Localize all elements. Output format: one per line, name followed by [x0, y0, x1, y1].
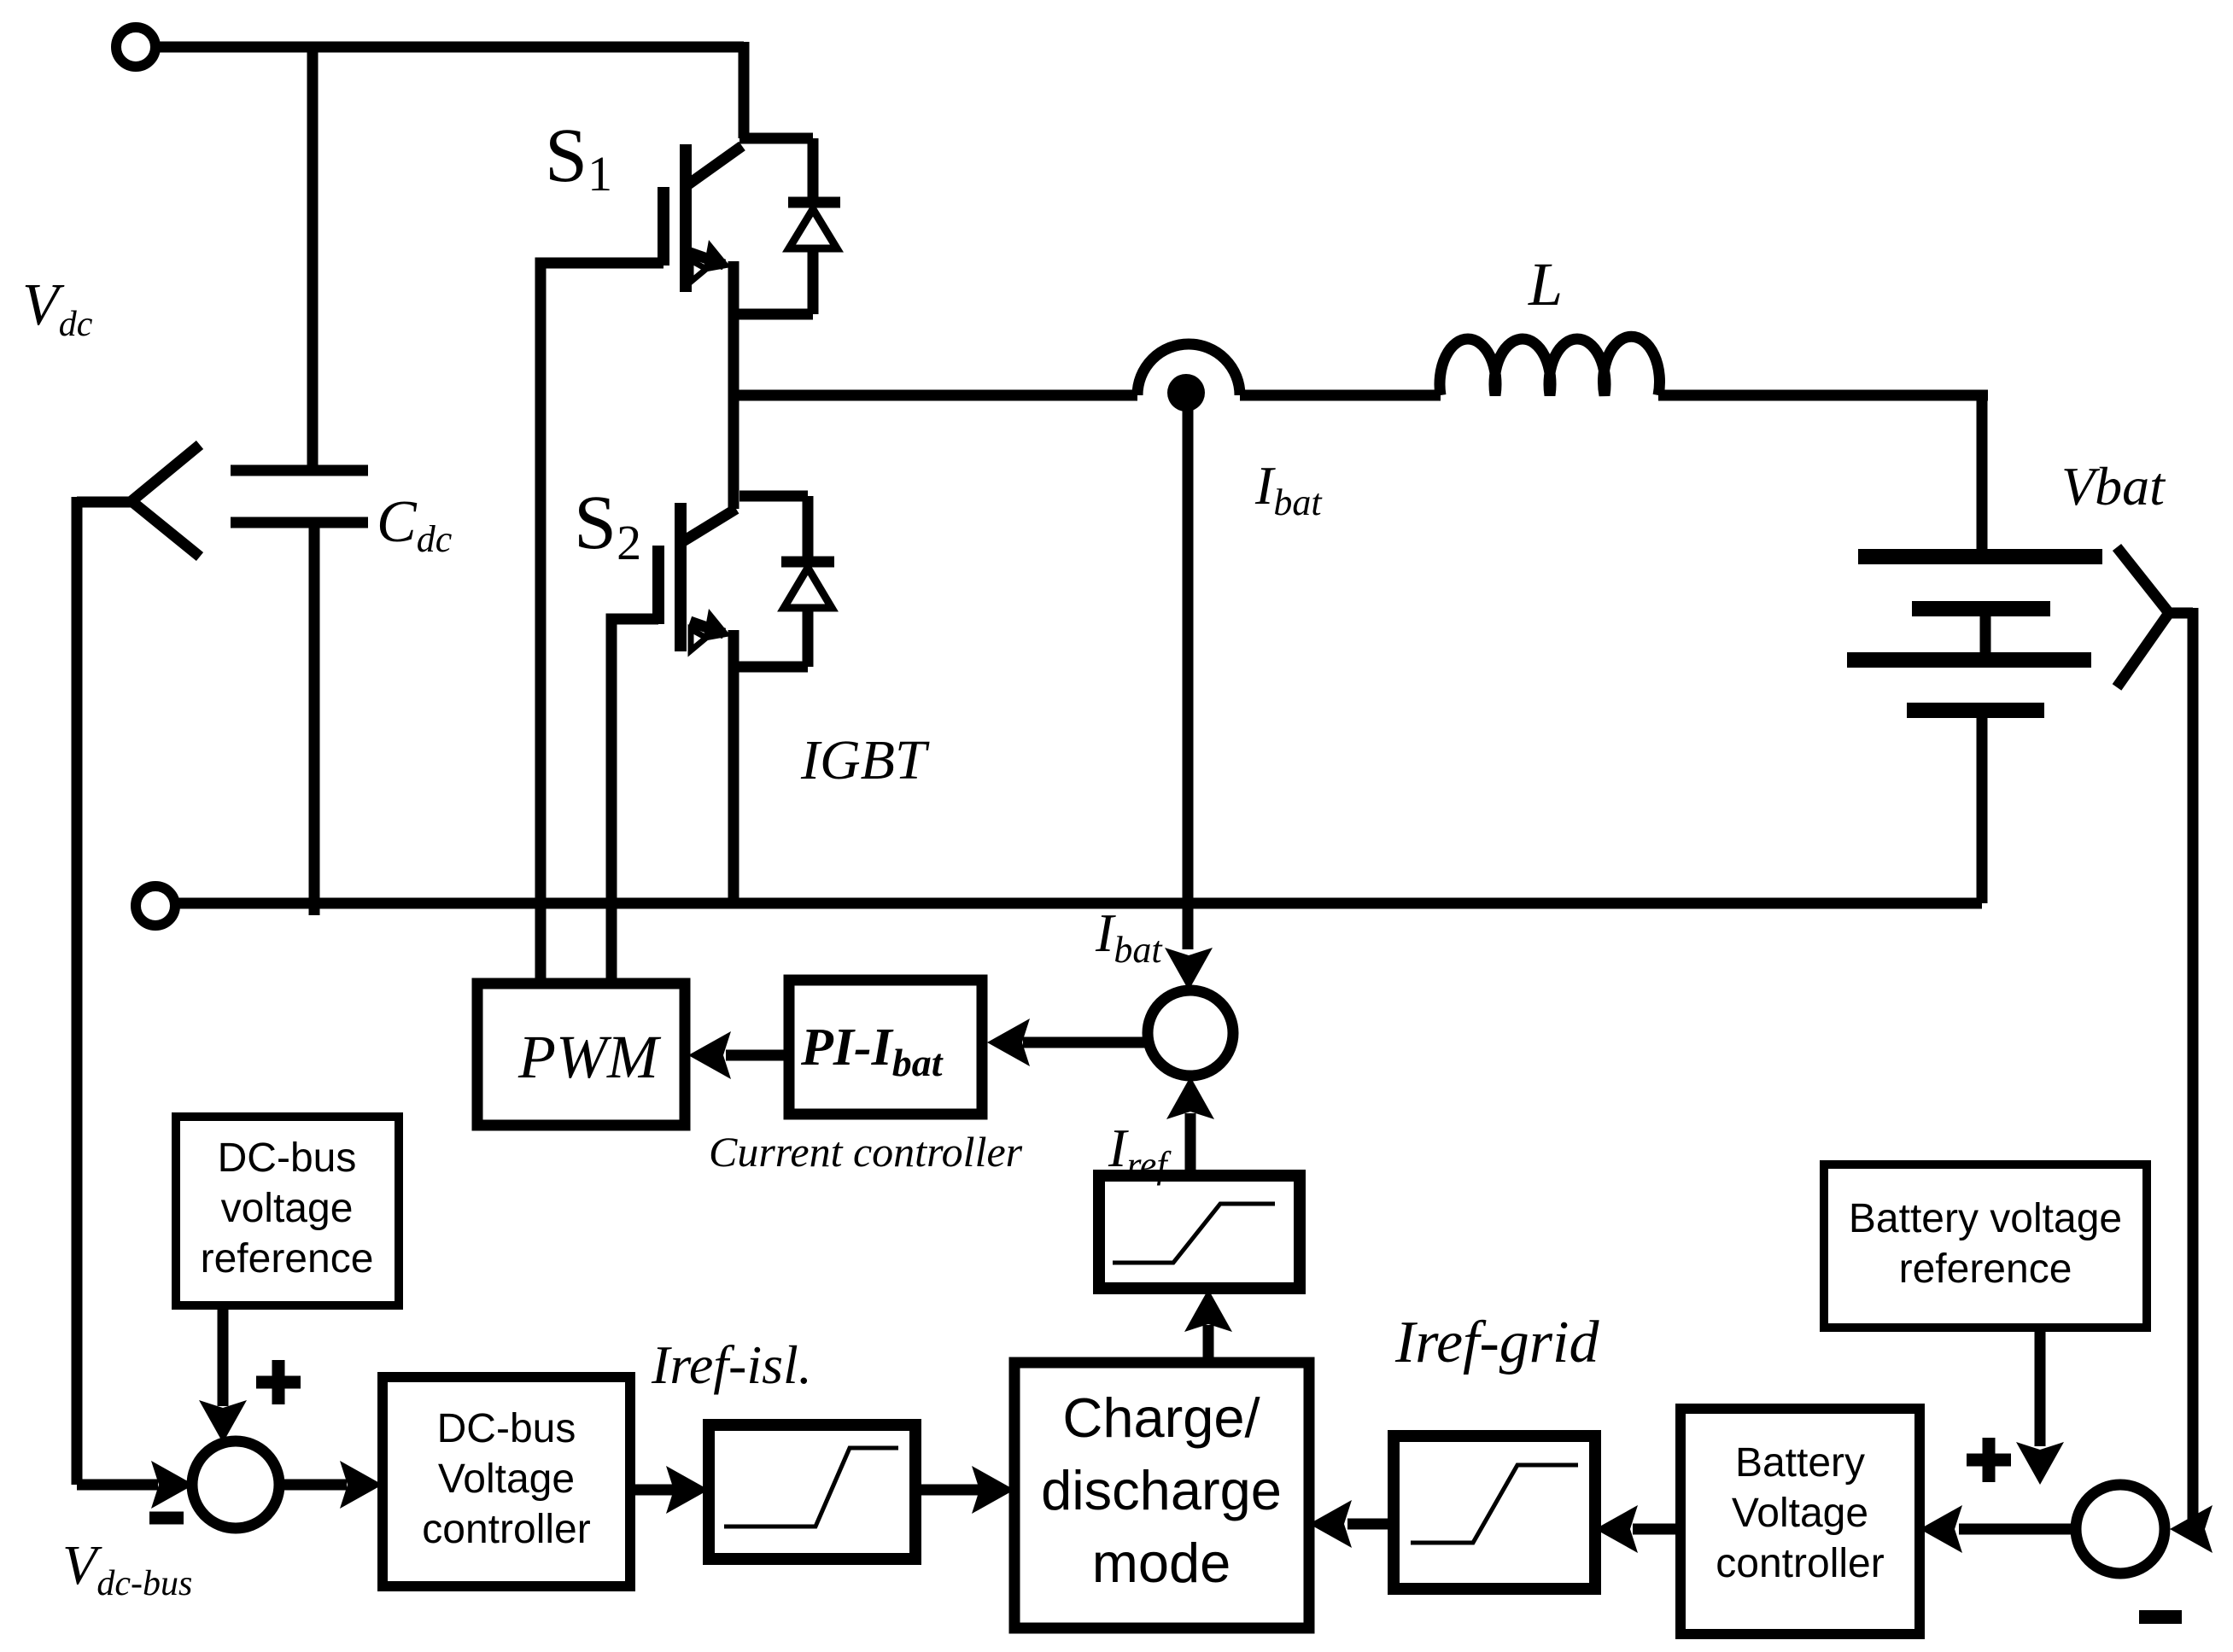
transistor S1 collector diagonal: [688, 146, 742, 184]
transistor S2 collector diagonal: [683, 509, 736, 541]
wire sum mid to PI: [1023, 1037, 1148, 1048]
diode D2: [781, 496, 834, 667]
wire S1 collector feed: [739, 42, 750, 138]
summing junction left: [192, 1441, 279, 1528]
wire S1 emitter connector: [734, 309, 813, 320]
transistor S1 gate bar: [658, 187, 669, 266]
wire inductor to battery: [1658, 390, 1988, 401]
arrowhead into sat1 from below: [1184, 1289, 1232, 1332]
block Charge/discharge mode: [1014, 1363, 1309, 1628]
block Battery Voltage controller: [1681, 1409, 1920, 1634]
wire Vbat sense: [2183, 608, 2193, 1529]
transistor S1 body: [680, 144, 692, 292]
wire S1-S2 midpoint vertical: [728, 261, 739, 509]
svg-text:L: L: [1528, 250, 1563, 318]
sign minus right: [2139, 1610, 2182, 1624]
diode D2 triangle: [784, 568, 832, 608]
svg-text:Voltage: Voltage: [1732, 1491, 1868, 1536]
wire charge box to sat1: [1203, 1325, 1214, 1363]
block saturation 1: [1099, 1176, 1300, 1288]
wire bat ref to sum3: [2035, 1328, 2046, 1446]
node Vdc-bus probe chevron: [77, 445, 200, 557]
sign minus left: [149, 1512, 184, 1525]
transistor S2 emitter arrow: [703, 609, 731, 641]
wire sat1 to sum mid (Iref): [1185, 1113, 1196, 1176]
sign plus left: [256, 1360, 301, 1404]
svg-text:controller: controller: [422, 1507, 590, 1552]
svg-text:Voltage: Voltage: [438, 1456, 575, 1502]
svg-text:Charge/: Charge/: [1062, 1386, 1260, 1449]
diode D1 triangle: [789, 209, 837, 248]
wire Ibat sense: [1183, 401, 1194, 949]
arrowhead into sum3 from top: [2016, 1442, 2064, 1485]
block PWM: [477, 984, 685, 1125]
wire Vdc-bus sense: [77, 497, 158, 1485]
transistor S2 body: [675, 503, 687, 651]
battery Vbat plates: [1847, 557, 2102, 710]
svg-text:reference: reference: [1899, 1246, 2072, 1292]
transistor S2 emitter: [690, 622, 724, 633]
wire S1 collector to diode D1: [739, 133, 813, 144]
svg-text:controller: controller: [1716, 1541, 1884, 1586]
saturation curve 2: [724, 1448, 898, 1526]
svg-text:reference: reference: [201, 1236, 374, 1281]
inductor L: [1440, 336, 1659, 395]
svg-text:PWM: PWM: [517, 1023, 662, 1091]
arrowhead into sum3 from right: [2170, 1505, 2213, 1553]
svg-text:discharge: discharge: [1041, 1459, 1282, 1521]
current sensor arc: [1137, 344, 1240, 395]
arrowhead into PI-Ibat: [987, 1019, 1030, 1066]
arrowhead into charge box left: [972, 1466, 1014, 1514]
wire S2 gate lead: [611, 619, 658, 984]
block Battery voltage reference: [1824, 1165, 2147, 1328]
wire S2 emitter connector: [734, 662, 808, 673]
svg-text:Battery voltage: Battery voltage: [1849, 1196, 2122, 1241]
block PI-Ibat: [789, 980, 982, 1114]
arrowhead into charge box right: [1309, 1500, 1352, 1548]
terminal bottom-left: [136, 886, 175, 925]
wire Cdc top lead: [307, 47, 319, 470]
block saturation 3: [1394, 1436, 1595, 1589]
svg-text:Battery: Battery: [1735, 1440, 1865, 1486]
transistor S1 emitter hollow arrow: [691, 260, 706, 282]
capacitor Cdc: [231, 470, 368, 915]
transistor S1 emitter arrow: [703, 240, 731, 272]
transistor S1 emitter: [690, 253, 724, 265]
svg-text:Iref-grid: Iref-grid: [1394, 1310, 1599, 1375]
transistor S2 emitter hollow arrow: [691, 629, 706, 651]
wire battery top lead: [1977, 395, 1988, 557]
arrowhead into BVC: [1920, 1505, 1962, 1553]
wire sensor to inductor: [1240, 390, 1441, 401]
block saturation 2: [709, 1425, 915, 1559]
sign plus right: [1967, 1438, 2011, 1482]
svg-text:DC-bus: DC-bus: [437, 1406, 576, 1451]
svg-text:DC-bus: DC-bus: [218, 1135, 357, 1181]
node Vbat probe chevron: [2117, 547, 2193, 687]
arrowhead Ibat into sum mid: [1165, 948, 1213, 990]
block DC-bus voltage reference: [176, 1117, 399, 1305]
svg-text:IGBT: IGBT: [800, 729, 930, 791]
wire S2 collector to diode D2: [739, 491, 808, 502]
wire BVC to sat3: [1633, 1524, 1681, 1535]
current sensor dot: [1167, 374, 1205, 412]
wire S2 emitter to bottom rail: [728, 630, 739, 903]
battery mid stub: [1980, 609, 1991, 660]
wire S1 gate lead: [541, 263, 663, 984]
arrowhead Iref into sum mid: [1166, 1077, 1214, 1119]
arrowhead into sum1 from top: [199, 1400, 247, 1443]
saturation curve 1: [1113, 1204, 1275, 1263]
wire DC-bus ref to sum: [218, 1305, 229, 1406]
arrowhead into DCVC: [340, 1461, 383, 1509]
arrowhead into PWM: [688, 1031, 731, 1079]
svg-text:Vbat: Vbat: [2061, 456, 2166, 517]
arrowhead into sat3: [1595, 1505, 1638, 1553]
wire battery bottom lead: [1977, 710, 1988, 903]
block DC-bus Voltage controller: [383, 1377, 630, 1586]
summing junction mid: [1148, 990, 1233, 1076]
svg-text:voltage: voltage: [221, 1186, 354, 1231]
wire PI to PWM: [726, 1050, 789, 1061]
svg-text:Iref-isl.: Iref-isl.: [651, 1334, 812, 1395]
terminal top-left: [116, 27, 155, 67]
wire midpoint output: [734, 390, 1137, 401]
svg-text:mode: mode: [1092, 1532, 1231, 1594]
wire sum3 to BVC: [1959, 1524, 2076, 1535]
wire sat2 to charge box: [915, 1485, 980, 1496]
arrowhead into sat2: [666, 1466, 709, 1514]
diode D1: [788, 138, 840, 314]
saturation curve 3: [1411, 1465, 1578, 1543]
summing junction right: [2076, 1485, 2165, 1573]
wire sum1 to DCVC: [278, 1480, 347, 1491]
wire top rail: [156, 42, 744, 53]
wire bottom rail: [176, 898, 1982, 909]
transistor S2 gate bar: [652, 546, 664, 624]
arrowhead into sum1 from left: [151, 1461, 194, 1509]
wire DCVC to sat2: [630, 1485, 675, 1496]
svg-text:Current controller: Current controller: [709, 1128, 1023, 1176]
wire sat3 to charge box: [1347, 1519, 1394, 1530]
